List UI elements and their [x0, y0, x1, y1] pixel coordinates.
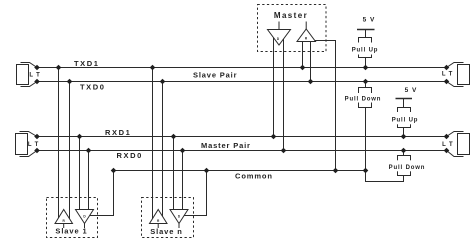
svg-text:Slave Pair: Slave Pair	[193, 70, 237, 79]
svg-text:L T: L T	[442, 142, 453, 148]
wire master receiver input B from TXD0	[310, 42, 312, 82]
wire TXD1 (slave pair +)	[37, 67, 447, 69]
slave n receiver triangle	[150, 210, 168, 229]
junction Common / pull-downs	[363, 168, 369, 174]
wire pull-up R3 bottom lead to RXD1	[403, 128, 405, 137]
junction RXD0 / LT4	[444, 148, 450, 154]
wire slave n receiver input A (TXD1 drop)	[152, 68, 154, 223]
wire master driver output A to RXD1	[273, 34, 275, 137]
wire slave1 common connection	[87, 171, 114, 216]
wire slave1 receiver input A (TXD1 drop)	[58, 68, 60, 223]
wire pull-down R2 bottom lead to Common	[365, 108, 367, 171]
junction RXD1 / LT2	[34, 134, 40, 140]
junction TXD0 / slave n receiver	[160, 79, 166, 85]
line termination LT1 left (slave pair)	[17, 63, 38, 87]
resistor R4 Pull Down (RXD0 to Common)	[388, 156, 427, 176]
slave n driver triangle	[170, 210, 188, 229]
wire slave n driver output B (RXD0 drop)	[182, 151, 184, 210]
svg-text:Pull Down: Pull Down	[345, 96, 382, 102]
junction RXD0 / slave1 driver	[86, 148, 92, 154]
junction TXD1 / LT1	[34, 65, 40, 71]
power rail 5V no.2	[396, 98, 413, 100]
wire RXD1 (master pair +)	[37, 136, 447, 138]
svg-text:Master Pair: Master Pair	[201, 141, 251, 150]
wire slave n driver output A (RXD1 drop)	[173, 137, 175, 210]
svg-text:Common: Common	[235, 172, 273, 181]
slave 1 receiver triangle	[55, 210, 73, 229]
junction RXD0 / LT2	[34, 148, 40, 154]
junction TXD0 / LT1	[34, 79, 40, 85]
svg-text:Slave n: Slave n	[150, 227, 183, 236]
svg-text:L T: L T	[28, 142, 39, 148]
junction RXD0 / master driver	[281, 148, 287, 154]
master driver triangle D	[268, 22, 291, 46]
power rail 5V no.1	[357, 29, 375, 31]
resistor R1 Pull Up (TXD1)	[350, 38, 380, 58]
junction TXD0 / master receiver	[308, 79, 314, 85]
svg-text:5 V: 5 V	[405, 87, 418, 94]
svg-text:Slave 1: Slave 1	[55, 227, 87, 236]
wire slave1 driver output A (RXD1 drop)	[79, 137, 81, 210]
svg-text:L T: L T	[442, 72, 453, 78]
slave n dashed enclosure	[142, 198, 194, 238]
wire master receiver input A from TXD1	[302, 42, 304, 68]
junction Common / master	[333, 168, 339, 174]
resistor R3 Pull Up (RXD1)	[391, 108, 420, 128]
slave 1 driver triangle	[76, 210, 94, 229]
wire pull-down R4 top lead from RXD0	[403, 151, 405, 156]
wire pull-down R2 top lead from TXD0	[365, 82, 367, 88]
junction RXD1 / slave n driver	[171, 134, 177, 140]
wire master driver output B to RXD0	[283, 34, 285, 151]
svg-text:TXD0: TXD0	[80, 83, 106, 92]
wire RXD0 (master pair -)	[37, 150, 447, 152]
svg-text:Pull Up: Pull Up	[352, 47, 379, 53]
junction TXD0 / pull-down R2	[363, 79, 369, 85]
wire pull-down R4 bottom lead jog to Common	[366, 171, 404, 182]
slave 1 dashed enclosure	[47, 198, 98, 238]
junction RXD1 / master driver	[271, 134, 277, 140]
svg-text:Master: Master	[274, 11, 308, 20]
resistor R2 Pull Down (TXD0 to Common)	[343, 88, 383, 108]
junction RXD0 / slave n driver	[180, 148, 186, 154]
svg-text:Pull Up: Pull Up	[392, 117, 419, 123]
wire pull-up R1 top lead from 5V	[365, 30, 367, 38]
junction TXD0 / LT3	[444, 79, 450, 85]
wire slave1 receiver input B (TXD0 drop)	[69, 82, 71, 223]
wire pull-up R3 top lead from 5V	[403, 99, 405, 108]
junction TXD1 / LT3	[444, 65, 450, 71]
line termination LT2 left (master pair)	[16, 132, 38, 157]
svg-text:5 V: 5 V	[363, 17, 376, 24]
wire pull-up R1 bottom lead to TXD1	[365, 58, 367, 68]
junction Common / slave1	[111, 168, 117, 174]
svg-text:RXD1: RXD1	[105, 128, 131, 137]
svg-text:TXD1: TXD1	[74, 59, 100, 68]
junction TXD1 / slave1 receiver	[56, 65, 62, 71]
junction RXD0 / pull-down R4	[401, 148, 407, 154]
wire Common	[114, 170, 366, 172]
junction TXD0 / slave1 receiver	[67, 79, 73, 85]
master receiver triangle R	[297, 22, 316, 42]
wire slave n receiver input B (TXD0 drop)	[162, 82, 164, 223]
junction TXD1 / master receiver	[300, 65, 306, 71]
junction RXD1 / pull-up R3	[401, 134, 407, 140]
svg-text:RXD0: RXD0	[117, 151, 143, 160]
junction TXD1 / slave n receiver	[150, 65, 156, 71]
master dashed enclosure	[258, 5, 327, 52]
line termination LT3 right (slave pair)	[447, 63, 470, 87]
svg-text:L T: L T	[29, 73, 40, 79]
junction RXD1 / slave1 driver	[77, 134, 83, 140]
line termination LT4 right (master pair)	[447, 132, 470, 157]
junction RXD1 / LT4	[444, 134, 450, 140]
wire slave n common connection	[181, 171, 207, 216]
wire TXD0 (slave pair -)	[37, 81, 447, 83]
wire master common connection	[313, 41, 336, 171]
wire slave1 driver output B (RXD0 drop)	[88, 151, 90, 210]
svg-text:Pull Down: Pull Down	[389, 165, 426, 171]
junction Common / slave n	[204, 168, 210, 174]
junction TXD1 / pull-up R1	[363, 65, 369, 71]
